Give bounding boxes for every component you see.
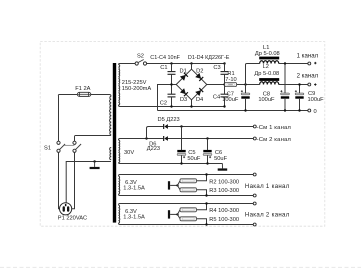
wire C2 leads xyxy=(171,85,173,107)
switch S2 xyxy=(135,60,147,66)
svg-text:-См 1 канал: -См 1 канал xyxy=(257,125,292,131)
wire riser to L1 row xyxy=(246,64,260,85)
svg-text:100uF: 100uF xyxy=(222,97,239,103)
junction C9 top xyxy=(298,83,300,85)
svg-text:50uF: 50uF xyxy=(214,156,227,162)
svg-text:Др 5-0.08: Др 5-0.08 xyxy=(255,51,280,57)
label C8 xyxy=(258,91,275,103)
capacitor C4 xyxy=(221,94,229,97)
wire screen to earth and plug pin xyxy=(66,162,111,204)
wire R2 left lead xyxy=(178,181,181,186)
wire bridge minus loop xyxy=(158,85,308,111)
junction C3C4 mid xyxy=(223,83,225,85)
wire R1 to L2 and channel2 terminal xyxy=(237,84,308,86)
svg-text:L2: L2 xyxy=(263,64,269,70)
terminal filament 1 b xyxy=(253,194,256,197)
junction R3 bottom xyxy=(205,194,207,196)
wire primary bottom to S1 pole2 xyxy=(75,135,111,141)
svg-text:100uF: 100uF xyxy=(258,97,275,103)
svg-text:C1-C4 10nF: C1-C4 10nF xyxy=(150,55,180,61)
svg-text:-См 2 канал: -См 2 канал xyxy=(257,137,292,143)
label C9 xyxy=(308,91,325,103)
wire C3 leads xyxy=(224,64,226,85)
svg-text:C2: C2 xyxy=(160,100,167,106)
junction R1 output xyxy=(244,83,246,85)
svg-text:Д223: Д223 xyxy=(147,146,160,152)
svg-text:D3: D3 xyxy=(180,97,187,103)
wire riser to D5 row xyxy=(147,127,164,139)
wire R4 left lead xyxy=(178,210,181,215)
plug P1 220VAC xyxy=(60,203,72,215)
resistor R4 xyxy=(180,208,197,212)
wire bridge bottom stub xyxy=(191,100,193,107)
junction C6 top xyxy=(206,137,208,139)
wire 30V bottom rail xyxy=(119,163,223,164)
svg-text:R2 100-300: R2 100-300 xyxy=(209,179,239,185)
diode D3 xyxy=(180,89,188,97)
svg-text:F1 2A: F1 2A xyxy=(75,86,90,92)
svg-text:Др 5-0.08: Др 5-0.08 xyxy=(254,71,279,77)
label D6 xyxy=(147,141,160,152)
inductor L1 xyxy=(259,57,279,64)
wire filament 2 top xyxy=(119,204,254,205)
terminal channel2 + xyxy=(308,83,317,86)
svg-text:50uF: 50uF xyxy=(187,156,200,162)
wire 215V top rail to S2 xyxy=(119,64,136,65)
frame bottom page edge xyxy=(0,266,361,268)
junction top rail bridge xyxy=(190,62,192,64)
label C7 xyxy=(222,91,239,103)
switch S1 mechanical link xyxy=(64,144,75,146)
ground symbol bias return xyxy=(218,164,228,171)
svg-text:C3: C3 xyxy=(213,65,220,71)
wire filament 2 bottom xyxy=(119,223,254,224)
switch S1 pole2 xyxy=(73,141,81,152)
wire filament 1 bottom xyxy=(119,194,254,195)
wire C7 leads xyxy=(245,85,247,111)
wire R2 to top wire xyxy=(197,175,207,181)
label L2 xyxy=(254,64,279,77)
transformer T1 filament winding 1 xyxy=(119,176,120,194)
label secondary 215V xyxy=(122,80,152,92)
junction filament 2 fork xyxy=(176,213,178,215)
wire D5 to Cm1 terminal xyxy=(168,126,253,128)
diode D6 xyxy=(163,136,168,141)
wire C1 leads xyxy=(171,64,173,85)
wire R5 left lead xyxy=(178,214,181,218)
svg-text:R5 100-300: R5 100-300 xyxy=(209,217,239,223)
svg-text:100uF: 100uF xyxy=(308,97,325,103)
label C5 xyxy=(187,150,200,162)
wire S1 pole1 to plug xyxy=(58,152,61,208)
wire filament 2 humdinger stub xyxy=(170,213,177,215)
wire 30V top to D6 and Cm2 terminal xyxy=(119,139,254,141)
wire top AC rail S2 to C3 xyxy=(147,63,225,65)
capacitor C1 xyxy=(168,72,176,75)
capacitor C6 xyxy=(203,150,212,158)
diode D1 xyxy=(180,73,188,81)
junction C5 top xyxy=(180,125,182,127)
terminal channel1 + xyxy=(308,62,317,65)
frame schematic page border xyxy=(40,42,325,227)
wire R4 to top wire xyxy=(197,204,207,210)
wire R3 left lead xyxy=(178,185,181,189)
transformer T1 core xyxy=(113,63,116,223)
svg-text:C4: C4 xyxy=(213,95,220,101)
resistor R3 xyxy=(180,188,197,192)
svg-text:D1-D4 КД226Г-Е: D1-D4 КД226Г-Е xyxy=(188,55,230,61)
inductor L2 xyxy=(259,78,279,84)
svg-text:P1 220VAC: P1 220VAC xyxy=(58,215,87,221)
svg-text:150-200mA: 150-200mA xyxy=(122,86,152,92)
label R1 xyxy=(225,71,236,83)
wire R3 to bottom wire xyxy=(197,190,207,196)
junction C9 ground xyxy=(298,109,300,111)
terminal filament 1 a xyxy=(253,173,256,176)
switch S1 pole1 xyxy=(57,141,65,152)
terminal filament 2 b xyxy=(253,223,256,226)
svg-text:30V: 30V xyxy=(124,150,134,156)
svg-text:7-10: 7-10 xyxy=(225,77,236,83)
terminal Cm channel1 xyxy=(253,125,256,128)
junction C5 bottom xyxy=(180,162,182,164)
junction C6 bottom xyxy=(206,162,208,164)
wire filament 1 top xyxy=(119,175,254,176)
terminal Cm channel2 xyxy=(253,137,256,140)
junction filament 1 fork xyxy=(176,184,178,186)
wire bridge top stub xyxy=(191,64,193,70)
svg-text:2 канал: 2 канал xyxy=(297,73,319,80)
fuse F1 xyxy=(77,92,90,96)
junction top rail C1 xyxy=(170,62,172,64)
transformer T1 secondary 215V winding xyxy=(119,65,120,105)
junction R5 bottom xyxy=(205,223,207,225)
wire C5 leads xyxy=(181,127,183,164)
svg-text:Накал 1 канал: Накал 1 канал xyxy=(245,183,290,190)
terminal filament 2 a xyxy=(253,202,256,205)
junction C8 top xyxy=(284,62,286,64)
svg-text:D1: D1 xyxy=(180,69,187,75)
wire C8 leads xyxy=(284,64,286,111)
svg-text:D4: D4 xyxy=(196,97,203,103)
wire S1 pole2 to plug xyxy=(72,152,75,208)
transformer T1 filament winding 2 xyxy=(119,205,120,223)
wire bottom AC rail xyxy=(119,105,225,107)
label C6 xyxy=(214,150,227,162)
svg-text:1 канал: 1 канал xyxy=(297,52,319,59)
wire C9 leads xyxy=(299,85,301,111)
svg-text:R3 100-300: R3 100-300 xyxy=(209,188,239,194)
junction screen ground xyxy=(93,160,95,162)
junction C1C2 mid xyxy=(170,83,172,85)
transformer T1 primary winding xyxy=(110,96,112,135)
svg-text:0: 0 xyxy=(314,109,317,115)
junction bottom rail C4 xyxy=(223,105,225,107)
diode D5 xyxy=(163,124,168,129)
wire C6 leads xyxy=(207,139,209,164)
capacitor C2 xyxy=(168,94,176,97)
svg-text:1.3-1.5A: 1.3-1.5A xyxy=(123,186,145,192)
svg-text:D5 Д223: D5 Д223 xyxy=(158,117,180,123)
junction R2 top xyxy=(205,173,207,175)
svg-text:R4 100-300: R4 100-300 xyxy=(209,208,239,214)
node bridge diamond xyxy=(176,69,207,100)
ground symbol at mains screen xyxy=(90,162,100,170)
svg-text:S1: S1 xyxy=(44,145,51,151)
junction D5 riser xyxy=(145,137,147,139)
wire R5 to bottom wire xyxy=(197,219,207,225)
capacitor C3 xyxy=(221,72,229,75)
svg-text:1.3-1.5A: 1.3-1.5A xyxy=(123,215,145,221)
transformer T1 secondary 30V winding xyxy=(119,140,120,162)
terminal 0 common xyxy=(308,109,311,112)
junction bottom rail bridge xyxy=(190,105,192,107)
resistor R5 xyxy=(180,217,197,221)
ground bar filament 1 humdinger xyxy=(168,181,170,189)
ground bar filament 2 humdinger xyxy=(168,210,170,218)
transformer T1 screen winding xyxy=(110,148,112,160)
wire L1 to channel1 terminal xyxy=(279,63,308,65)
capacitor C8 xyxy=(280,90,289,98)
junction bottom rail C2 xyxy=(170,105,172,107)
junction top rail C3 xyxy=(223,62,225,64)
wire fuse loop top (S1 pole1 to F1 to primary top) xyxy=(58,95,111,142)
resistor R1 xyxy=(225,83,237,87)
capacitor C9 xyxy=(295,90,304,98)
svg-text:S2: S2 xyxy=(137,54,144,60)
svg-text:C1: C1 xyxy=(160,65,167,71)
diode D4 xyxy=(196,88,204,96)
capacitor C5 xyxy=(177,150,186,158)
label filament winding 2 xyxy=(123,209,145,221)
junction R4 top xyxy=(205,202,207,204)
resistor R2 xyxy=(180,179,197,183)
label filament winding 1 xyxy=(123,180,145,192)
capacitor C7 xyxy=(241,90,250,98)
diode D2 xyxy=(196,73,204,81)
svg-text:D2: D2 xyxy=(196,69,203,75)
svg-text:Накал 2 канал: Накал 2 канал xyxy=(245,212,290,219)
wire C4 leads xyxy=(224,85,226,107)
junction C8 ground xyxy=(284,109,286,111)
wire filament 1 humdinger stub xyxy=(170,184,177,186)
label L1 xyxy=(255,45,280,57)
wire bridge plus to R1 xyxy=(207,84,226,86)
junction C7 ground xyxy=(244,109,246,111)
